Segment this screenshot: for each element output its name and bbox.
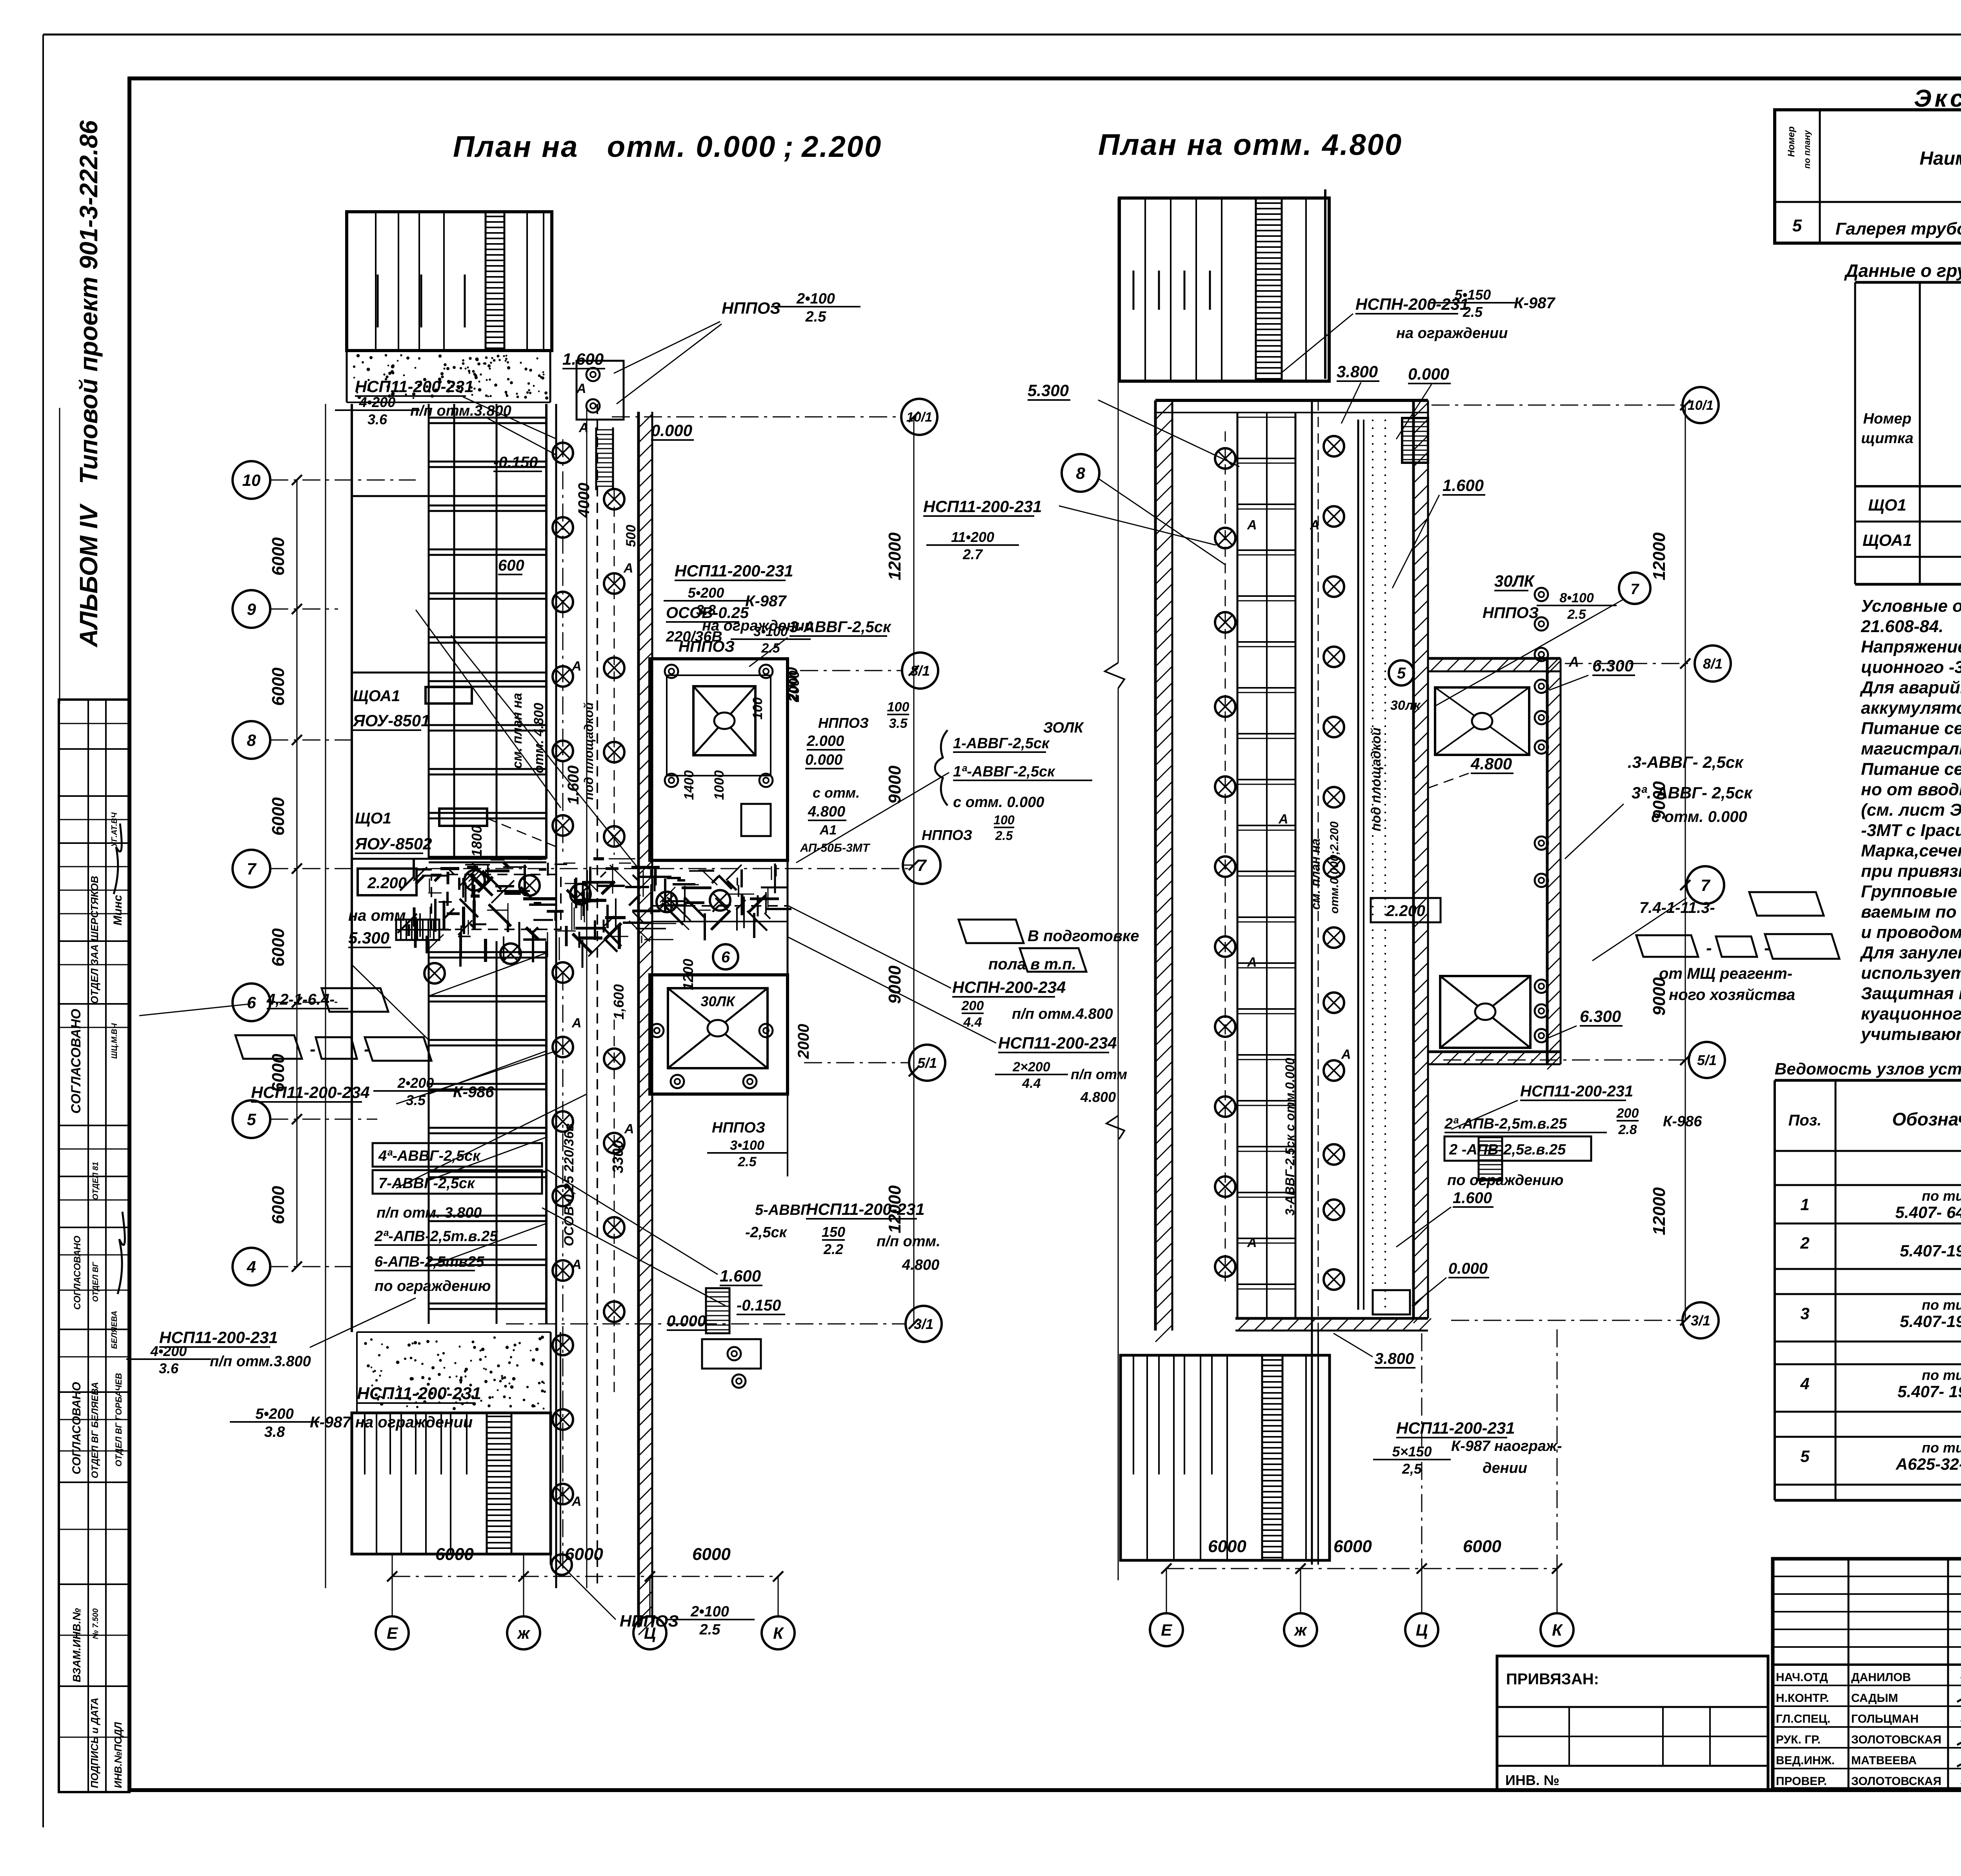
svg-text:3•100: 3•100: [753, 624, 788, 639]
svg-text:А: А: [1568, 654, 1579, 670]
svg-text:А625-32-00-00: А625-32-00-00: [1896, 1455, 1961, 1473]
svg-text:4000: 4000: [575, 483, 593, 518]
svg-text:220/36В: 220/36В: [666, 629, 722, 645]
right plan: top wall block: [1119, 198, 1329, 381]
svg-text:6000: 6000: [269, 667, 288, 706]
svg-text:А: А: [624, 1122, 634, 1136]
svg-text:1-АВВГ-2,5ск: 1-АВВГ-2,5ск: [953, 735, 1050, 752]
right plan: boundary line: [1118, 198, 1119, 663]
svg-text:К-987: К-987: [1514, 294, 1555, 312]
svg-text:Для зануления элементов электр: Для зануления элементов электрооборудова…: [1859, 943, 1961, 962]
svg-text:100: 100: [993, 813, 1015, 827]
panel table: [1855, 281, 1961, 284]
svg-text:План на отм. 0.000 ; 2.200: План на отм. 0.000 ; 2.200: [453, 130, 882, 164]
svg-text:1: 1: [1800, 1195, 1809, 1214]
left plan: intersection mess: [485, 870, 509, 873]
svg-text:УГ.АТ.ВЧ: УГ.АТ.ВЧ: [110, 812, 119, 847]
svg-text:АЛЬБОМ IV Типовой проект 901: АЛЬБОМ IV Типовой проект 901-3-222.86: [75, 120, 103, 648]
svg-text:5/1: 5/1: [917, 1055, 937, 1071]
svg-text:5/1: 5/1: [1697, 1052, 1717, 1068]
left plan: bottom dim + axis letters: [392, 1576, 778, 1577]
svg-text:4: 4: [1800, 1374, 1809, 1393]
svg-text:Ц: Ц: [1416, 1621, 1428, 1639]
svg-text:2.5: 2.5: [1567, 607, 1586, 622]
svg-text:5•150: 5•150: [1455, 287, 1491, 303]
svg-text:п/п отм.: п/п отм.: [877, 1233, 940, 1250]
left plan: long leader diagonals: [396, 1094, 587, 1188]
svg-text:4•200: 4•200: [359, 394, 396, 410]
left plan: upper right room: [650, 659, 788, 860]
svg-text:ОСОВ-0,25 220/36в: ОСОВ-0,25 220/36в: [562, 1123, 577, 1246]
svg-text:3300: 3300: [610, 1140, 626, 1173]
svg-text:на отм: на отм: [348, 907, 406, 924]
left plan: bottom lamps + labels: [551, 1554, 572, 1575]
svg-text:6000: 6000: [269, 797, 288, 836]
svg-text:2.5: 2.5: [1463, 304, 1483, 320]
svg-text:А: А: [1247, 518, 1257, 533]
svg-text:ОТДЕЛ ВГ БЕЛЯЕВА: ОТДЕЛ ВГ БЕЛЯЕВА: [90, 1382, 100, 1478]
svg-text:8/1: 8/1: [1703, 656, 1723, 672]
svg-text:Для аварийного освещения преду: Для аварийного освещения предусмотрены п…: [1859, 678, 1961, 697]
svg-text:9000: 9000: [1650, 977, 1669, 1016]
svg-text:2,5: 2,5: [1402, 1461, 1422, 1477]
svg-text:А1: А1: [819, 823, 837, 838]
svg-text:по ограждению: по ограждению: [1447, 1172, 1563, 1189]
svg-text:2 -АПВ-2,5г.в.25: 2 -АПВ-2,5г.в.25: [1449, 1142, 1566, 1158]
svg-text:ПРОВЕР.: ПРОВЕР.: [1776, 1775, 1827, 1788]
svg-text:по типу: по типу: [1922, 1367, 1961, 1383]
svg-text:7-АВВГ-2,5ск: 7-АВВГ-2,5ск: [378, 1175, 475, 1192]
svg-text:В подготовке: В подготовке: [1028, 927, 1139, 945]
svg-text:7.4-1-11.3-: 7.4-1-11.3-: [1639, 899, 1715, 916]
svg-text:А: А: [1278, 812, 1288, 827]
svg-text:0.000: 0.000: [805, 752, 842, 768]
svg-text:Питание сети рабочего освещени: Питание сети рабочего освещения запроект…: [1861, 719, 1961, 738]
svg-text:2•100: 2•100: [796, 291, 835, 307]
svg-text:5-АВВГ: 5-АВВГ: [755, 1202, 810, 1218]
svg-text:9000: 9000: [1650, 781, 1669, 820]
svg-text:-: -: [310, 1040, 316, 1059]
svg-text:1,600: 1,600: [611, 984, 627, 1020]
svg-text:30лк: 30лк: [1390, 698, 1421, 713]
svg-text:ШЦ.М.ВЧ: ШЦ.М.ВЧ: [110, 1023, 119, 1059]
svg-text:12000: 12000: [1650, 532, 1669, 580]
svg-text:НСПН-200-234: НСПН-200-234: [952, 978, 1066, 996]
svg-text:1800: 1800: [469, 825, 485, 857]
left plan: bottom wall block: [352, 1413, 551, 1554]
svg-text:3/1: 3/1: [914, 1316, 933, 1332]
svg-text:6000: 6000: [1208, 1537, 1246, 1556]
left plan: corridor lines: [555, 404, 557, 1588]
svg-text:используется нулевой рабочий п: используется нулевой рабочий провод сети…: [1861, 963, 1961, 983]
svg-text:РУК. ГР.: РУК. ГР.: [1776, 1733, 1821, 1746]
svg-text:Минс: Минс: [111, 895, 124, 925]
svg-text:4.800: 4.800: [1080, 1089, 1116, 1105]
svg-text:по ограждению: по ограждению: [375, 1278, 491, 1294]
svg-text:ВЕД.ИНЖ.: ВЕД.ИНЖ.: [1776, 1754, 1835, 1767]
svg-text:4.800: 4.800: [902, 1257, 939, 1273]
left plan: podgotovka labels: [959, 920, 1024, 943]
svg-text:от МЩ реагент-: от МЩ реагент-: [1659, 965, 1792, 982]
explication table left: [1775, 110, 1961, 243]
svg-text:А: А: [1341, 1047, 1351, 1062]
svg-text:6000: 6000: [1333, 1537, 1372, 1556]
svg-text:Данные о групповых щитках с ав: Данные о групповых щитках с автоматическ…: [1844, 260, 1961, 281]
svg-text:с отм.: с отм.: [813, 785, 860, 801]
svg-text:600: 600: [498, 557, 524, 574]
svg-text:6-АПВ-2,5тв25: 6-АПВ-2,5тв25: [375, 1254, 484, 1270]
right plan: 2.200 box + rotated: [1371, 898, 1441, 922]
svg-text:ВЗАМ.ИНВ.№: ВЗАМ.ИНВ.№: [71, 1608, 83, 1682]
right plan: bottom dims: [1166, 1568, 1557, 1569]
svg-text:п/п отм. 3.800: п/п отм. 3.800: [377, 1205, 482, 1221]
svg-text:1.600: 1.600: [720, 1267, 761, 1285]
svg-text:5.407- 64 л. 60: 5.407- 64 л. 60: [1895, 1203, 1961, 1222]
svg-text:под площадкой: под площадкой: [582, 702, 596, 800]
right plan: room number 5: [1389, 660, 1414, 685]
svg-text:НППОЗ: НППОЗ: [922, 827, 972, 843]
svg-text:ЩОА1: ЩОА1: [353, 687, 400, 705]
sheet outer border: [42, 35, 44, 1827]
svg-text:2.200: 2.200: [367, 874, 407, 892]
svg-text:Поз.: Поз.: [1788, 1112, 1822, 1129]
svg-text:200: 200: [961, 998, 984, 1013]
svg-text:с отм. 0.000: с отм. 0.000: [953, 794, 1044, 811]
svg-text:п/п отм.3.800: п/п отм.3.800: [210, 1353, 311, 1370]
svg-text:2.5: 2.5: [805, 309, 827, 325]
svg-text:6: 6: [721, 949, 730, 966]
svg-text:магистрального щитка МЩ здания: магистрального щитка МЩ здания реагентно…: [1861, 739, 1961, 758]
svg-text:3/1: 3/1: [1691, 1312, 1710, 1329]
svg-text:-3МТ с Iрасц.•25А.: -3МТ с Iрасц.•25А.: [1861, 821, 1961, 840]
right plan: corridor: [1311, 400, 1313, 1331]
svg-text:НППОЗ: НППОЗ: [712, 1120, 765, 1136]
svg-text:Галерея трубопроводов: Галерея трубопроводов: [1835, 219, 1961, 238]
svg-text:СОГЛАСОВАНО: СОГЛАСОВАНО: [72, 1236, 83, 1310]
svg-text:Экспликация: Экспликация: [1914, 85, 1961, 112]
svg-text:МАТВЕЕВА: МАТВЕЕВА: [1851, 1754, 1917, 1767]
svg-text:8•100: 8•100: [1559, 591, 1594, 605]
svg-text:Напряжение сети освещения: общ: Напряжение сети освещения: общего рабоче…: [1861, 637, 1961, 656]
svg-text:10/1: 10/1: [906, 410, 932, 425]
svg-text:К-987: К-987: [745, 593, 787, 610]
left plan: top dotted band: [346, 351, 348, 402]
svg-text:К-987 на ограждении: К-987 на ограждении: [310, 1414, 473, 1431]
left plan: 2.200 box: [358, 869, 417, 895]
svg-text:НСП11-200-231: НСП11-200-231: [1396, 1419, 1515, 1437]
svg-text:0.000: 0.000: [1448, 1260, 1488, 1277]
svg-text:см. план на: см. план на: [1308, 838, 1322, 910]
svg-text:Защитная полиэтиленовая труба: Защитная полиэтиленовая труба питающего …: [1861, 984, 1961, 1003]
svg-text:5×150: 5×150: [1392, 1443, 1432, 1460]
svg-text:500: 500: [624, 525, 639, 547]
svg-text:0.000: 0.000: [667, 1312, 706, 1330]
svg-text:5: 5: [247, 1110, 256, 1129]
svg-text:6.300: 6.300: [1580, 1007, 1621, 1025]
svg-text:4.800: 4.800: [1470, 754, 1512, 773]
svg-text:ного хозяйства: ного хозяйства: [1669, 986, 1795, 1003]
right plan: right dim lines + axes: [1683, 387, 1719, 423]
svg-text:ИНВ.№ПОДЛ: ИНВ.№ПОДЛ: [112, 1721, 124, 1788]
svg-text:НСП11-200-231: НСП11-200-231: [357, 1384, 481, 1403]
svg-text:А: А: [1310, 518, 1320, 533]
svg-text:по типу: по типу: [1922, 1297, 1961, 1313]
svg-text:ваемым по стенам и перекрытиям: ваемым по стенам и перекрытиям на скобах…: [1861, 902, 1961, 922]
svg-text:ЯОУ-8501: ЯОУ-8501: [353, 711, 430, 730]
svg-text:30ЛК: 30ЛК: [1494, 572, 1535, 590]
svg-text:А: А: [1247, 1235, 1257, 1250]
svg-text:по типу: по типу: [1922, 1440, 1961, 1456]
svg-text:2.5: 2.5: [699, 1622, 721, 1638]
svg-text:6000: 6000: [435, 1545, 474, 1564]
left plan: lower right room: [650, 975, 788, 1094]
svg-text:Обозначение: Обозначение: [1892, 1109, 1961, 1129]
svg-text:4.4: 4.4: [1022, 1076, 1041, 1091]
svg-text:НСП11-200-231: НСП11-200-231: [923, 497, 1042, 516]
svg-text:9000: 9000: [885, 965, 904, 1004]
right plan: window grid: [1237, 413, 1239, 1318]
svg-text:БЕЛЯЕВА: БЕЛЯЕВА: [110, 1311, 119, 1349]
svg-text:п/п отм: п/п отм: [1071, 1066, 1127, 1082]
svg-text:Условные обозначения приняты п: Условные обозначения приняты по ГОСТ 2.7…: [1861, 596, 1961, 616]
svg-text:Ведомость узлов установки элек: Ведомость узлов установки электрического…: [1775, 1060, 1961, 1078]
right plan: bottom wall block: [1121, 1355, 1330, 1560]
svg-text:2ª.АПВ-2,5т.в.25: 2ª.АПВ-2,5т.в.25: [1444, 1116, 1567, 1132]
svg-text:но от вводных зажимов распреде: но от вводных зажимов распределительного…: [1861, 780, 1961, 799]
svg-text:План на отм. 4.800: План на отм. 4.800: [1098, 128, 1403, 162]
svg-text:НАЧ.ОТД: НАЧ.ОТД: [1776, 1671, 1828, 1684]
svg-text:-: -: [1706, 938, 1712, 958]
svg-text:К: К: [773, 1624, 784, 1642]
svg-text:ОТДЕЛ ВГ: ОТДЕЛ ВГ: [91, 1261, 100, 1302]
svg-text:10/1: 10/1: [1688, 398, 1714, 413]
svg-text:А: А: [571, 1016, 582, 1031]
svg-text:А: А: [623, 561, 633, 576]
svg-text:НППОЗ: НППОЗ: [1483, 604, 1539, 622]
svg-text:ж: ж: [517, 1624, 531, 1642]
svg-text:ЗОЛОТОВСКАЯ: ЗОЛОТОВСКАЯ: [1851, 1733, 1941, 1746]
svg-text:2.200: 2.200: [1386, 902, 1425, 920]
svg-text:6: 6: [247, 993, 256, 1012]
svg-text:2: 2: [1800, 1234, 1809, 1252]
svg-text:ЯОУ-8502: ЯОУ-8502: [355, 834, 432, 853]
svg-text:НСП11-200-231: НСП11-200-231: [1520, 1083, 1633, 1100]
left plan: lower gallery grid with braces: [428, 941, 430, 1324]
svg-text:12000: 12000: [1650, 1187, 1669, 1235]
svg-text:при привязке проекта.: при привязке проекта.: [1861, 862, 1961, 881]
svg-text:3.5: 3.5: [889, 716, 908, 731]
svg-text:6000: 6000: [565, 1545, 603, 1564]
svg-text:ж: ж: [1294, 1621, 1308, 1639]
svg-text:5.407-19 л.10: 5.407-19 л.10: [1900, 1312, 1961, 1331]
svg-text:4ª-АВВГ-2,5ск: 4ª-АВВГ-2,5ск: [378, 1148, 481, 1164]
svg-text:дении: дении: [1483, 1460, 1527, 1476]
svg-text:Номер: Номер: [1786, 126, 1797, 157]
svg-text:5•200: 5•200: [255, 1406, 294, 1422]
svg-text:6000: 6000: [1463, 1537, 1501, 1556]
svg-text:0.000: 0.000: [651, 421, 692, 440]
svg-text:СОГЛАСОВАНО: СОГЛАСОВАНО: [70, 1382, 83, 1474]
svg-text:НППОЗ: НППОЗ: [818, 715, 869, 731]
svg-text:ПРИВЯЗАН:: ПРИВЯЗАН:: [1506, 1671, 1599, 1688]
svg-text:учитываются при привязке проек: учитываются при привязке проекта.: [1860, 1025, 1961, 1044]
left plan: left wall + upper gallery grid: [325, 404, 326, 1588]
svg-text:8: 8: [247, 731, 256, 749]
svg-text:НППОЗ: НППОЗ: [722, 299, 780, 317]
left plan: panel callouts: [426, 687, 472, 703]
svg-text:куационного освещения, и прокл: куационного освещения, и прокладка его в…: [1861, 1004, 1961, 1023]
svg-text:6000: 6000: [692, 1545, 731, 1564]
svg-text:3-АВВГ-2,5ск: 3-АВВГ-2,5ск: [789, 618, 891, 636]
svg-text:ционного -380/220В, переносног: ционного -380/220В, переносного-36В.: [1861, 658, 1961, 677]
svg-text:на ограждении: на ограждении: [1396, 325, 1508, 342]
left plan: stairs: [396, 920, 439, 940]
svg-text:1.600: 1.600: [565, 765, 582, 805]
svg-text:А: А: [571, 1257, 582, 1272]
svg-text:САДЫМ: САДЫМ: [1851, 1692, 1898, 1705]
svg-text:Групповые сети выполняются каб: Групповые сети выполняются кабелем АВВГ,…: [1861, 882, 1961, 901]
svg-text:11•200: 11•200: [951, 529, 994, 545]
svg-text:7: 7: [917, 856, 927, 874]
left plan: entry platform top right: [577, 361, 624, 420]
svg-text:НСП11-200-231: НСП11-200-231: [806, 1200, 925, 1218]
svg-text:А: А: [576, 381, 586, 396]
right plan: right annex pavilion: [1428, 657, 1561, 660]
svg-text:7: 7: [1630, 581, 1639, 598]
svg-text:1.600: 1.600: [562, 350, 604, 368]
svg-text:ОСОВ-0.25: ОСОВ-0.25: [666, 604, 749, 622]
svg-text:4.800: 4.800: [808, 803, 845, 820]
svg-text:100: 100: [750, 697, 765, 720]
svg-text:30ЛК: 30ЛК: [701, 993, 736, 1009]
svg-text:12000: 12000: [885, 532, 904, 580]
svg-text:СОГЛАСОВАНО: СОГЛАСОВАНО: [69, 1009, 84, 1114]
svg-text:2.5: 2.5: [737, 1154, 757, 1169]
right plan: lamp chains: [1225, 431, 1226, 1286]
svg-text:3-АВВГ-2,5ск с отм.0.000: 3-АВВГ-2,5ск с отм.0.000: [1283, 1058, 1297, 1216]
svg-text:ПОДПИСЬ и ДАТА: ПОДПИСЬ и ДАТА: [89, 1698, 100, 1788]
left plan: top wall block: [347, 212, 552, 351]
svg-text:9000: 9000: [885, 765, 904, 804]
svg-text:-0.150: -0.150: [737, 1297, 781, 1314]
left plan: left dim line 6000s: [297, 480, 298, 1267]
svg-text:пола в т.п.: пола в т.п.: [988, 956, 1076, 973]
svg-text:Е: Е: [1161, 1621, 1173, 1639]
title block: [1773, 1559, 1961, 1789]
svg-text:21.608-84.: 21.608-84.: [1861, 617, 1943, 636]
svg-text:1400: 1400: [682, 770, 697, 800]
svg-text:2.5: 2.5: [995, 829, 1013, 843]
svg-text:ИНВ. №: ИНВ. №: [1505, 1772, 1559, 1788]
svg-text:НСП11-200-234: НСП11-200-234: [998, 1034, 1117, 1052]
svg-text:АП-50Б-3МТ: АП-50Б-3МТ: [800, 842, 871, 854]
svg-text:НСПН-200-231: НСПН-200-231: [1355, 295, 1469, 313]
svg-text:№ 7.500: № 7.500: [91, 1608, 100, 1639]
left plan: room number 6: [713, 944, 738, 969]
left plan: corridor lamp chain A: [562, 439, 564, 855]
svg-text:НСП11-200-234: НСП11-200-234: [251, 1083, 370, 1102]
svg-text:10: 10: [242, 471, 261, 489]
left stamp strip: [59, 700, 129, 1792]
svg-text:3: 3: [1800, 1304, 1809, 1323]
svg-text:ГЛ.СПЕЦ.: ГЛ.СПЕЦ.: [1776, 1712, 1830, 1725]
svg-text:2.2: 2.2: [823, 1241, 843, 1257]
svg-text:5.407-19 л.22: 5.407-19 л.22: [1900, 1242, 1961, 1260]
svg-text:9: 9: [247, 600, 256, 618]
left plan: corridor lamp chain B: [614, 490, 615, 855]
left plan: axis circles left: [233, 461, 270, 499]
svg-text:6000: 6000: [269, 1186, 288, 1224]
svg-text:3.800: 3.800: [1337, 362, 1378, 381]
svg-text:2.5: 2.5: [761, 641, 780, 656]
svg-text:7: 7: [1701, 876, 1710, 894]
svg-text:-2,5ск: -2,5ск: [745, 1224, 788, 1241]
svg-text:Питание сети эвакуационного ос: Питание сети эвакуационного освещения за…: [1861, 760, 1961, 779]
svg-text:под площадкой: под площадкой: [1369, 727, 1384, 831]
svg-text:2ª-АПВ-2,5т.в.25: 2ª-АПВ-2,5т.в.25: [374, 1228, 498, 1245]
svg-text:(см. лист ЭМ-2) с защитой авто: (см. лист ЭМ-2) с защитой автоматом А1 т…: [1861, 800, 1961, 820]
svg-text:по плану: по плану: [1802, 129, 1812, 169]
svg-text:3.6: 3.6: [367, 411, 387, 427]
svg-text:0.000: 0.000: [1408, 365, 1449, 383]
svg-text:2×200: 2×200: [1012, 1060, 1050, 1074]
svg-text:ЩО1: ЩО1: [1868, 496, 1906, 514]
left plan: bottom dotted band: [357, 1331, 551, 1333]
svg-text:1200: 1200: [680, 959, 696, 990]
svg-text:А: А: [1247, 955, 1257, 970]
svg-text:3•100: 3•100: [730, 1138, 764, 1153]
svg-text:А: А: [571, 1494, 582, 1509]
svg-text:см. план на: см. план на: [510, 693, 525, 769]
svg-text:1.600: 1.600: [1453, 1189, 1492, 1207]
right plan: small platform bits: [1479, 1137, 1502, 1180]
svg-text:Номер: Номер: [1863, 411, 1911, 427]
svg-text:200: 200: [1616, 1106, 1639, 1121]
svg-text:НСП11-200-231: НСП11-200-231: [675, 562, 793, 580]
svg-text:ГОЛЬЦМАН: ГОЛЬЦМАН: [1851, 1712, 1919, 1725]
svg-text:1.600: 1.600: [1443, 476, 1484, 494]
vedomost table: [1775, 1079, 1961, 1082]
right plan: main body walls: [1154, 400, 1157, 1331]
svg-text:5: 5: [1800, 1447, 1810, 1465]
svg-text:2•100: 2•100: [690, 1603, 729, 1620]
svg-text:отм.0.000;2.200: отм.0.000;2.200: [1328, 821, 1341, 914]
privyazan block: [1497, 1656, 1768, 1791]
svg-text:6000: 6000: [269, 537, 288, 576]
svg-text:ЩОА1: ЩОА1: [1863, 531, 1912, 549]
svg-text:150: 150: [822, 1224, 845, 1240]
svg-text:К-986: К-986: [453, 1083, 494, 1101]
svg-text:2.8: 2.8: [1618, 1122, 1637, 1137]
svg-text:п/п отм.4.800: п/п отм.4.800: [1012, 1006, 1113, 1022]
svg-text:8: 8: [1076, 464, 1085, 482]
svg-text:Ц: Ц: [644, 1624, 656, 1642]
svg-text:К-987 наограж-: К-987 наограж-: [1451, 1438, 1562, 1454]
svg-text:К-986: К-986: [1663, 1113, 1702, 1130]
svg-text:3.6: 3.6: [159, 1360, 179, 1376]
svg-text:К: К: [1552, 1621, 1563, 1639]
svg-text:2.000: 2.000: [806, 733, 844, 749]
svg-text:щитка: щитка: [1861, 430, 1913, 447]
svg-text:А: А: [571, 659, 582, 674]
svg-text:ОТДЕЛ ЗАА ШЕРСТЯКОВ: ОТДЕЛ ЗАА ШЕРСТЯКОВ: [89, 876, 100, 1004]
svg-text:аккумуляторные светильники.: аккумуляторные светильники.: [1861, 698, 1961, 718]
svg-text:2000: 2000: [795, 1024, 812, 1059]
svg-text:Н.КОНТР.: Н.КОНТР.: [1776, 1692, 1829, 1705]
svg-text:5: 5: [1792, 216, 1802, 235]
svg-text:1ª-АВВГ-2,5ск: 1ª-АВВГ-2,5ск: [953, 763, 1055, 780]
svg-text:и проводом АПВ в трубах.: и проводом АПВ в трубах.: [1861, 923, 1961, 942]
